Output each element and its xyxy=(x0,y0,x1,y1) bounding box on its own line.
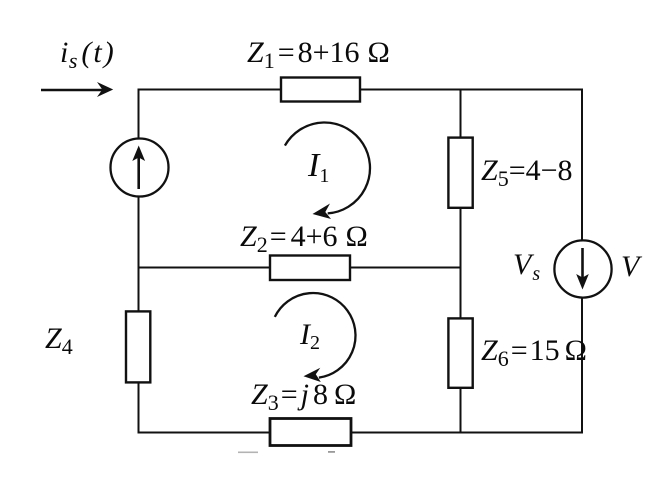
loop current I1 arc xyxy=(285,123,370,219)
svg-text:is(t): is(t) xyxy=(60,36,114,73)
wire left vertical xyxy=(138,89,140,434)
current source arrow is(t) xyxy=(41,82,113,97)
loop current I2 arc xyxy=(275,293,356,382)
resistor Z1 xyxy=(281,78,360,102)
svg-text:Z5=4−8: Z5=4−8 xyxy=(481,154,573,191)
wire right vertical xyxy=(581,89,583,434)
wire top horizontal xyxy=(138,89,584,91)
wire middle vertical (Z5/Z6 branch) xyxy=(460,90,462,433)
resistor Z5 xyxy=(448,138,472,208)
resistor Z4 xyxy=(126,311,150,382)
voltage source Vs (circle with down arrow) xyxy=(554,240,611,297)
resistor Z6 xyxy=(448,318,472,387)
resistor Z2 xyxy=(270,256,350,281)
wire bottom horizontal xyxy=(138,432,584,434)
resistor Z3 xyxy=(270,419,351,446)
svg-text:Z3=j8Ω: Z3=j8Ω xyxy=(251,378,356,415)
svg-text:Z6=15Ω: Z6=15Ω xyxy=(481,334,587,371)
faint caption remnant xyxy=(238,451,335,453)
current source I (circle with up arrow) xyxy=(111,139,169,197)
wire middle horizontal xyxy=(139,267,461,269)
